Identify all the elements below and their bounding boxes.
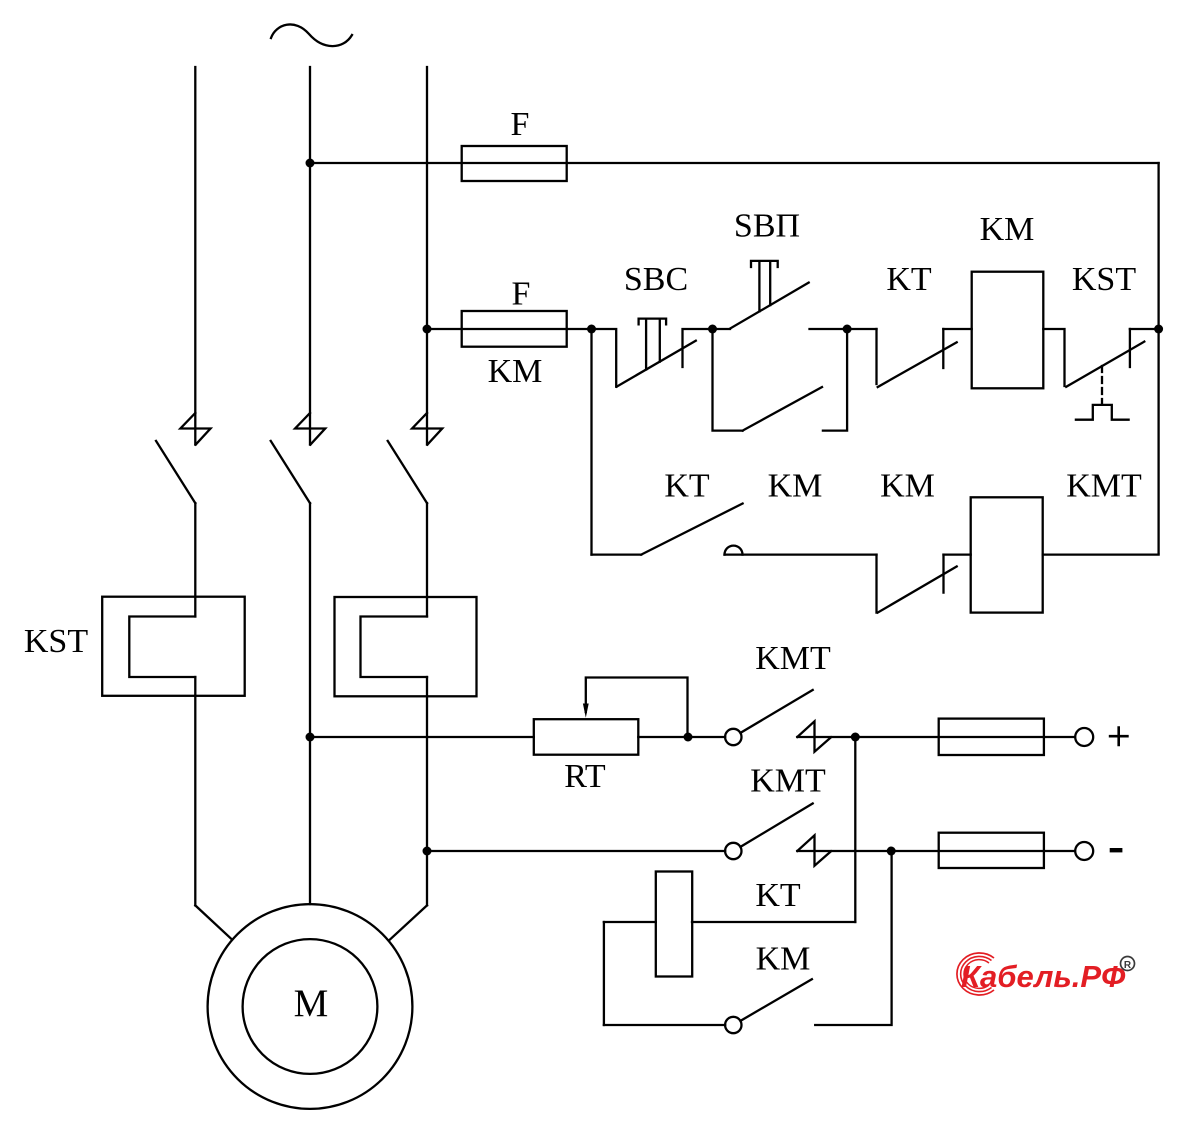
pushbutton SBP upper blade bbox=[730, 283, 809, 329]
contact KST mechanical link dashed bbox=[1101, 366, 1103, 404]
wire L1 lead to motor bbox=[195, 905, 232, 939]
fuse row737 rectangle bbox=[939, 719, 1044, 755]
motor M outer circle bbox=[208, 904, 413, 1109]
svg-text:Кабель.РФ: Кабель.РФ bbox=[961, 959, 1126, 994]
contact KST right terminal bbox=[1129, 329, 1131, 367]
wire RT row from L2 bbox=[310, 736, 534, 738]
node RT wiper bbox=[684, 733, 693, 742]
rheostat RT wiper arrowhead bbox=[583, 704, 589, 718]
svg-text:KST: KST bbox=[24, 623, 88, 660]
logo registered mark bbox=[1121, 957, 1135, 972]
wire KM row2 to KMT coil bbox=[944, 553, 971, 555]
svg-text:SBC: SBC bbox=[624, 261, 688, 298]
contact KMT row851 blade bbox=[740, 804, 812, 847]
wire KMT coil to right bus bbox=[1043, 553, 1159, 555]
pushbutton SBP lower blade bbox=[743, 387, 822, 431]
node D row1 bbox=[843, 325, 852, 334]
label plus terminal bbox=[1109, 726, 1129, 746]
node B row1 bbox=[587, 325, 596, 334]
contact KM row2 left terminal bbox=[875, 555, 877, 613]
contact KMT row737 blade bbox=[740, 690, 812, 733]
svg-text:KM: KM bbox=[756, 941, 811, 978]
wire phase L2 upper vertical bbox=[309, 67, 311, 445]
svg-text:KMT: KMT bbox=[750, 763, 826, 800]
node row851 bbox=[887, 847, 896, 856]
contact KST speed-switch symbol bbox=[1076, 405, 1129, 420]
svg-text:SBП: SBП bbox=[734, 208, 800, 245]
wire row2 left bbox=[592, 553, 642, 555]
node C row1 SBP bbox=[708, 325, 717, 334]
wire phase L1 upper vertical bbox=[194, 67, 196, 445]
brake coil KST1 rectangle bbox=[102, 597, 245, 696]
svg-text:KM: KM bbox=[488, 353, 543, 390]
logo Kabel.RF swirl arcs bbox=[957, 953, 994, 995]
svg-text:R: R bbox=[1124, 960, 1132, 971]
svg-text:KM: KM bbox=[768, 468, 823, 505]
node L2 top feeder bbox=[306, 159, 315, 168]
wire KT coil row right bbox=[692, 921, 855, 923]
svg-text:KMT: KMT bbox=[1066, 468, 1142, 505]
pushbutton SBC actuator bbox=[639, 319, 667, 370]
fuse F top rectangle bbox=[462, 146, 567, 181]
node L3 row1 bbox=[423, 325, 432, 334]
pushbutton SBP lower right terminal bbox=[823, 329, 847, 431]
brake coil KST1 inner loop bbox=[129, 617, 195, 678]
coil KT rectangle bbox=[656, 872, 692, 977]
svg-text:KMT: KMT bbox=[755, 640, 831, 677]
wire control row1 left bbox=[427, 328, 592, 330]
wire row737 to fuse and plus terminal bbox=[797, 736, 1075, 738]
pushbutton SBC left terminal bbox=[592, 329, 617, 387]
contact KT row1 right terminal bbox=[942, 329, 944, 368]
pushbutton SBC blade bbox=[617, 341, 696, 387]
breaker release symbol on L1 bbox=[180, 413, 210, 445]
terminal circle minus bbox=[1075, 842, 1093, 860]
label minus terminal bbox=[1110, 848, 1123, 852]
svg-text:KT: KT bbox=[755, 877, 801, 914]
contact KT row2 blade bbox=[641, 504, 742, 555]
svg-text:M: M bbox=[294, 982, 329, 1025]
wire KM bottom right terminal up to node bbox=[815, 851, 891, 1025]
breaker release symbol on L2 bbox=[295, 413, 325, 445]
wire L3 lead to motor bbox=[389, 905, 427, 940]
coil KM rectangle bbox=[972, 272, 1044, 389]
wire top feeder bbox=[310, 162, 1159, 164]
wire KT to KM coil bbox=[943, 328, 971, 330]
brake coil KST2 inner loop bbox=[361, 617, 428, 678]
contact KT row1 blade bbox=[878, 342, 957, 387]
contact KM row2 right terminal bbox=[942, 555, 944, 593]
pushbutton SBP actuator bbox=[751, 261, 778, 312]
fuse F row1 rectangle bbox=[462, 311, 567, 347]
wire drop from node 737 bbox=[854, 737, 856, 922]
switch QS blade L1 bbox=[156, 441, 195, 503]
svg-text:F: F bbox=[511, 106, 530, 143]
wire KM bottom row bbox=[604, 1024, 725, 1026]
wire KT coil row left bbox=[604, 921, 656, 923]
rheostat RT rectangle bbox=[534, 719, 639, 755]
node L3 row851 bbox=[423, 847, 432, 856]
wire KST to right bus bbox=[1130, 328, 1159, 330]
pushbutton SBC right terminal bbox=[683, 329, 713, 367]
switch QS blade L3 bbox=[388, 441, 427, 503]
wire phase L3 below coil bbox=[426, 677, 428, 905]
wire SBP node stub bbox=[713, 328, 731, 330]
node right bus row1 bbox=[1154, 325, 1163, 334]
wire right bus vertical bbox=[1157, 163, 1159, 553]
switch QS blade L2 bbox=[271, 441, 310, 503]
contact KMT row737 terminal circle bbox=[725, 729, 741, 745]
pushbutton SBP lower left terminal bbox=[713, 329, 743, 431]
contact KM bottom terminal circle bbox=[725, 1017, 741, 1033]
rheostat RT wiper bracket bbox=[586, 678, 688, 738]
wire RT to KMT contact bbox=[638, 736, 725, 738]
arrester symbol row851 bbox=[797, 835, 831, 865]
svg-text:RT: RT bbox=[564, 758, 606, 795]
svg-text:KT: KT bbox=[886, 261, 932, 298]
arrester symbol row737 bbox=[797, 721, 831, 751]
svg-text:KST: KST bbox=[1072, 261, 1136, 298]
wire phase L1 lower vertical bbox=[194, 503, 196, 616]
svg-text:KM: KM bbox=[980, 211, 1035, 248]
AC source symbol ~ bbox=[271, 24, 352, 46]
wire phase L3 lower vertical bbox=[426, 503, 428, 616]
wire KT coil left drop bbox=[603, 922, 605, 1025]
wire phase L1 below coil bbox=[194, 677, 196, 905]
wire phase L2 lower vertical bbox=[309, 503, 311, 904]
wire row2 drop from node B bbox=[590, 329, 592, 555]
wire row1 after SBP bbox=[810, 328, 877, 330]
svg-text:KM: KM bbox=[880, 468, 935, 505]
svg-text:F: F bbox=[512, 276, 531, 313]
node L2 RT row bbox=[306, 733, 315, 742]
contact KMT row851 terminal circle bbox=[725, 843, 741, 859]
wire KM coil to KST contact bbox=[1043, 329, 1064, 386]
svg-text:KT: KT bbox=[664, 468, 710, 505]
wire row851 from L3 bbox=[427, 850, 725, 852]
motor M inner circle bbox=[243, 939, 378, 1074]
contact KT row2 terminal arc bbox=[725, 546, 743, 555]
contact KM bottom blade bbox=[740, 979, 812, 1021]
wire phase L3 upper vertical bbox=[426, 67, 428, 445]
wire row851 to fuse and minus terminal bbox=[797, 850, 1075, 852]
contact KST blade bbox=[1066, 342, 1144, 387]
contact KT row1 left terminal bbox=[875, 329, 877, 384]
wire row2 middle bbox=[725, 553, 877, 555]
terminal circle plus bbox=[1075, 728, 1093, 746]
brake coil KST2 rectangle bbox=[335, 597, 477, 696]
contact KM row2 blade bbox=[878, 567, 957, 613]
breaker release symbol on L3 bbox=[412, 413, 442, 445]
node row737 bbox=[851, 733, 860, 742]
coil KMT rectangle bbox=[971, 497, 1043, 612]
fuse row851 rectangle bbox=[939, 833, 1044, 868]
